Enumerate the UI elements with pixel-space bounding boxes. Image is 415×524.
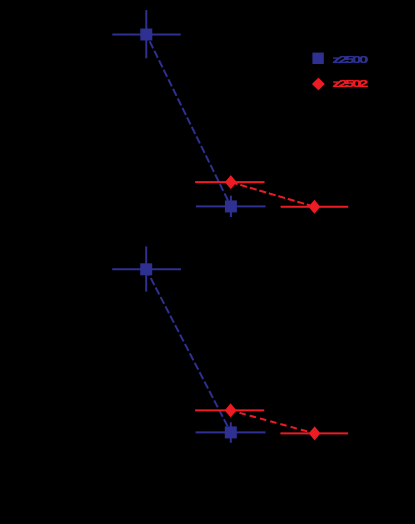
- red dashed line Q1-Q2: [231, 182, 315, 207]
- red Q2' x error bar: [280, 432, 348, 434]
- red Q2 x error bar: [281, 206, 349, 208]
- legend blue square: [312, 53, 323, 64]
- red diamond marker Q1: [225, 175, 237, 189]
- legend red diamond: [312, 78, 325, 91]
- red diamond marker Q1': [225, 403, 237, 417]
- red Q1' x error bar: [195, 409, 264, 411]
- blue square marker P2: [225, 200, 237, 212]
- blue P1 x error bar: [112, 34, 180, 36]
- blue square marker P1: [140, 29, 152, 41]
- svg-text:z2500: z2500: [332, 53, 368, 65]
- red diamond marker Q2': [309, 426, 321, 440]
- blue dashed line P1-P2: [146, 35, 231, 207]
- blue P2' x error bar: [196, 431, 266, 433]
- red diamond marker Q2: [309, 200, 321, 214]
- blue P2 x error bar: [196, 205, 266, 207]
- blue P2 y error bar: [230, 196, 232, 217]
- svg-text:z2502: z2502: [332, 78, 368, 90]
- blue P1 y error bar: [145, 10, 147, 58]
- blue square marker P2': [225, 426, 237, 438]
- red Q1 x error bar: [195, 181, 264, 183]
- blue P2' y error bar: [230, 422, 232, 443]
- blue square marker P1': [140, 263, 152, 275]
- blue dashed line P1'-P2': [146, 269, 231, 432]
- blue P1' y error bar: [145, 247, 147, 292]
- blue P1' x error bar: [112, 268, 181, 270]
- red dashed line Q1'-Q2': [231, 410, 315, 433]
